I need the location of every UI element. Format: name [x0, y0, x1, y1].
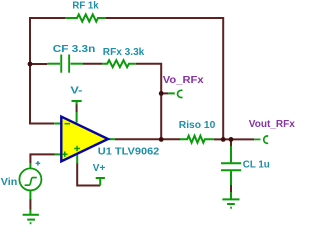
svg-text:RF 1k: RF 1k: [72, 1, 99, 12]
svg-text:Vin: Vin: [1, 177, 18, 188]
svg-text:CL 1u: CL 1u: [243, 160, 270, 171]
svg-text:U1 TLV9062: U1 TLV9062: [98, 147, 160, 158]
svg-text:RFx 3.3k: RFx 3.3k: [103, 47, 145, 58]
svg-text:V-: V-: [70, 86, 82, 97]
svg-text:Vo_RFx: Vo_RFx: [163, 75, 204, 86]
svg-text:V+: V+: [93, 163, 106, 174]
svg-text:Vout_RFx: Vout_RFx: [249, 119, 295, 130]
svg-text:Riso 10: Riso 10: [179, 120, 216, 131]
svg-text:CF 3.3n: CF 3.3n: [53, 44, 96, 55]
